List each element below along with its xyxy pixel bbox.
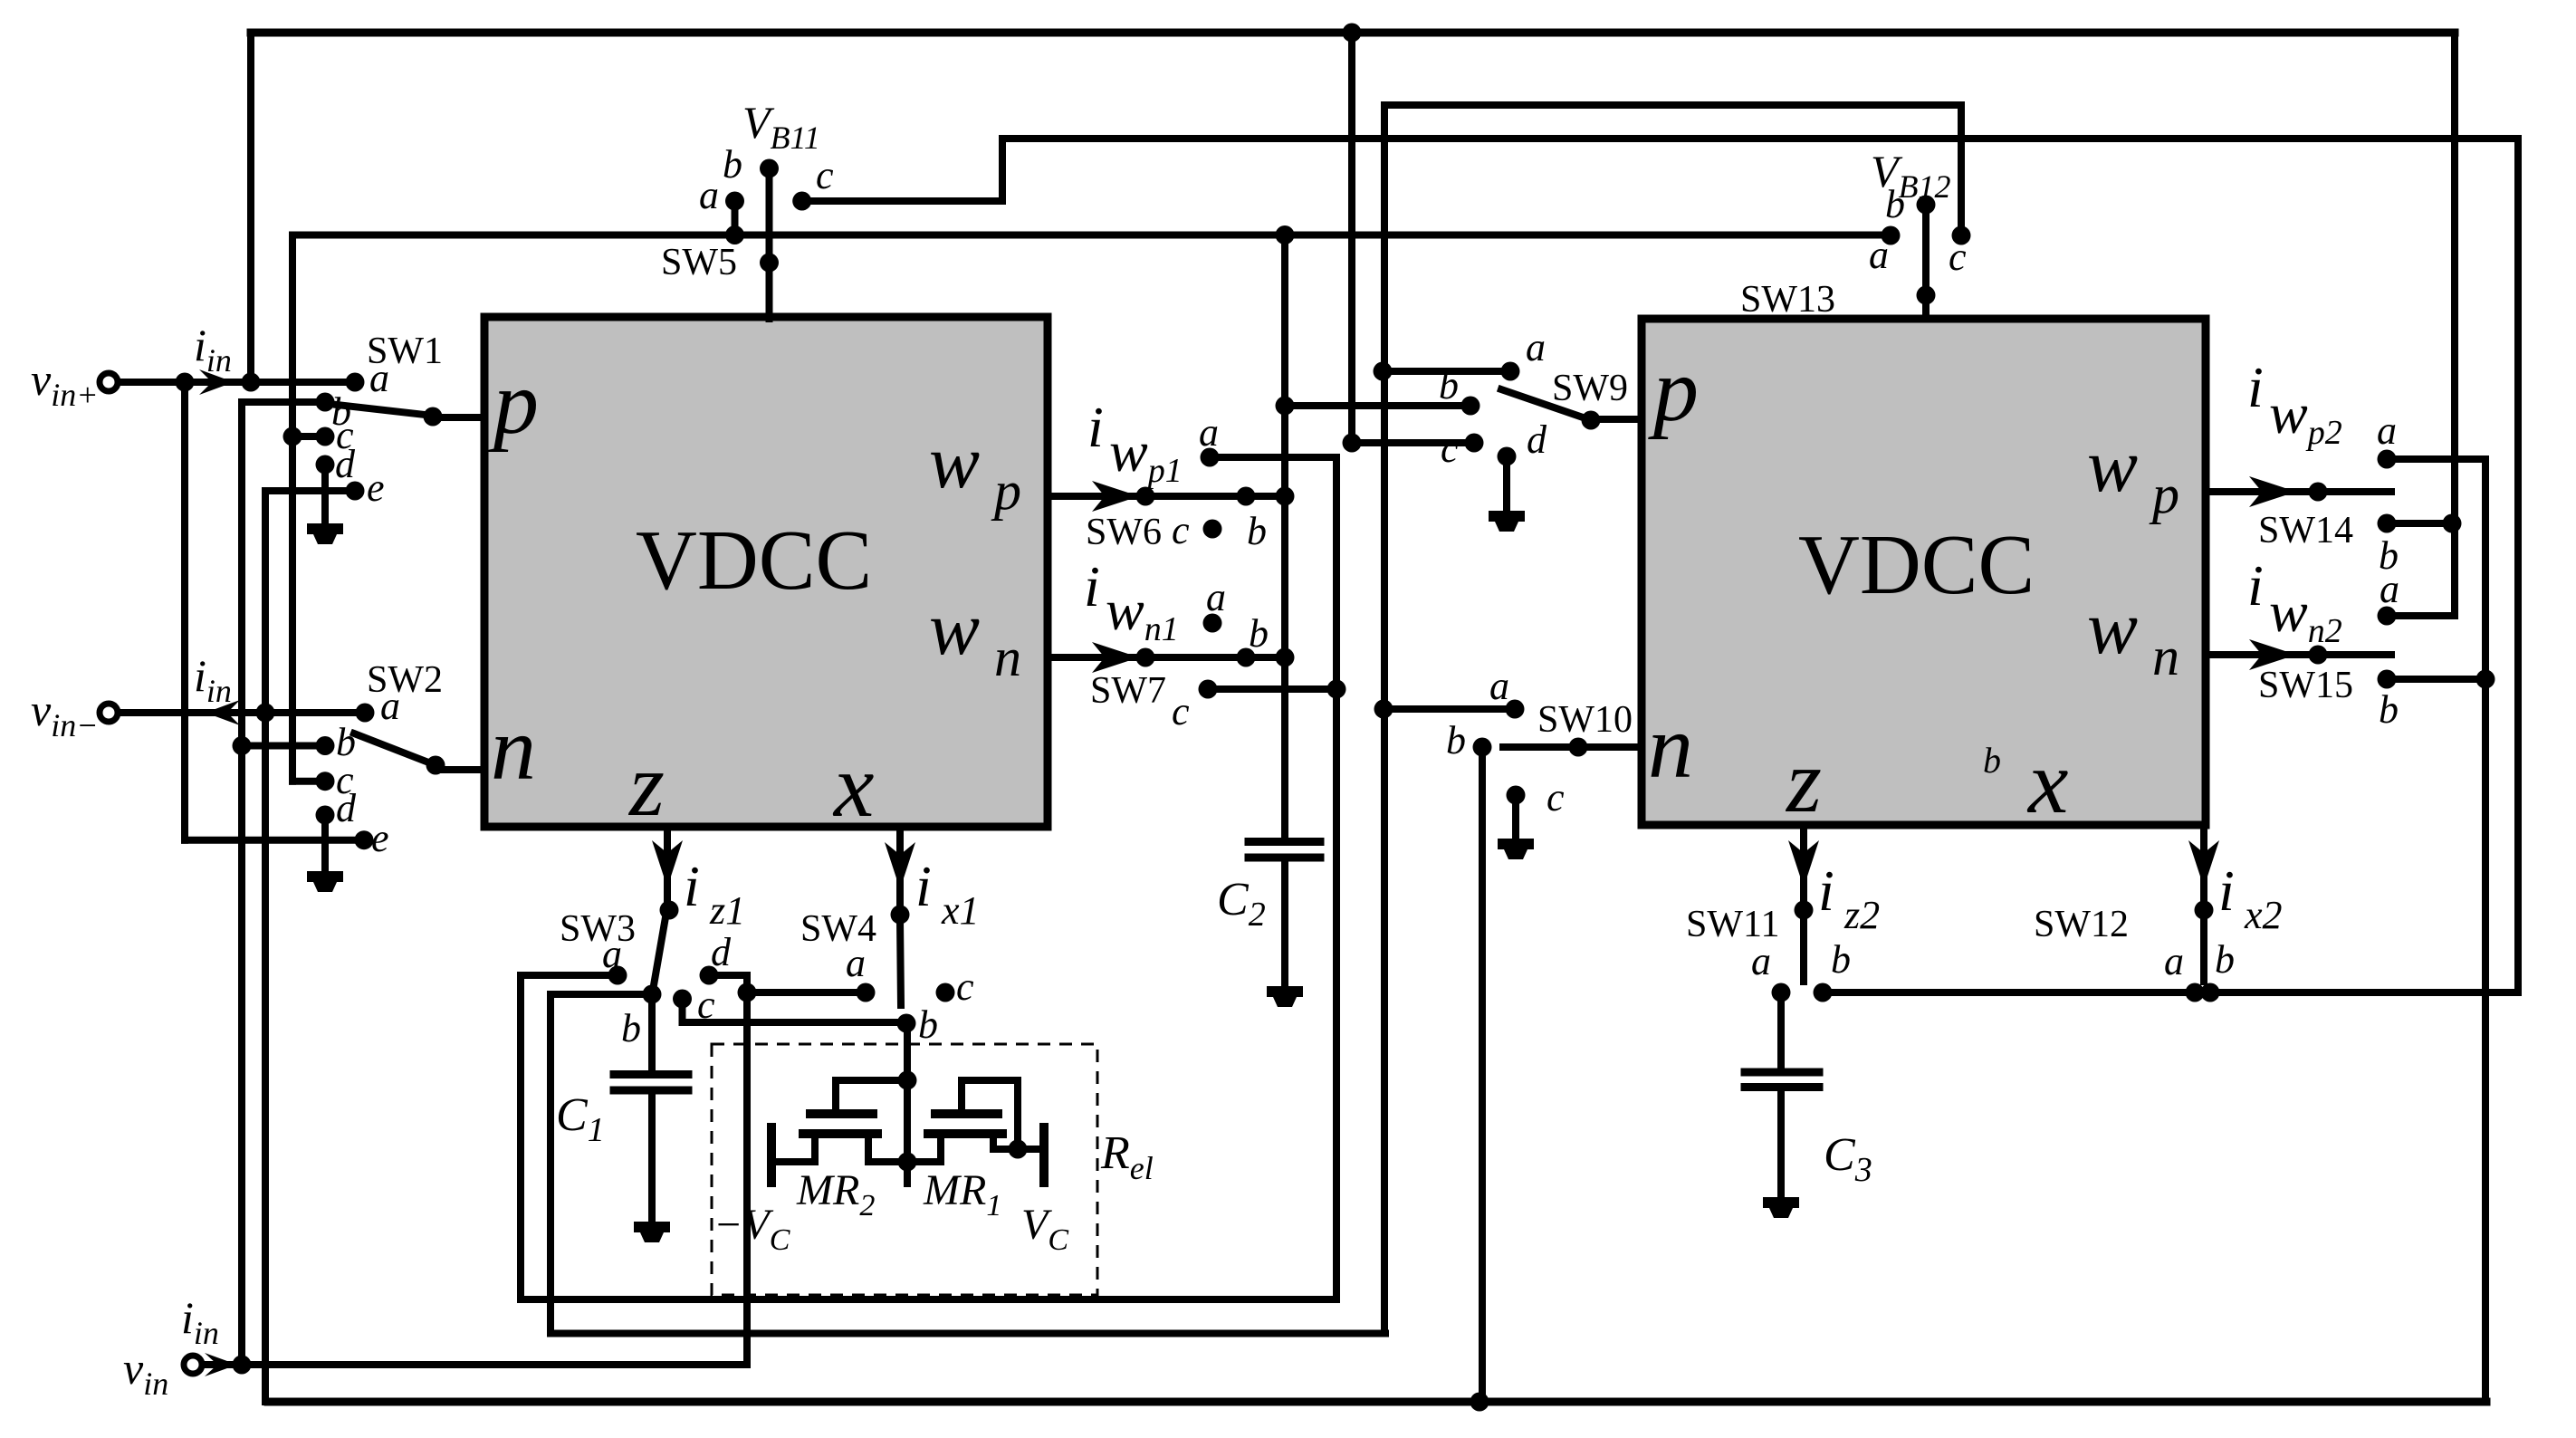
svg-text:b: b xyxy=(1885,182,1905,226)
svg-text:b: b xyxy=(1247,509,1267,553)
svg-text:i: i xyxy=(2247,355,2264,419)
svg-text:i: i xyxy=(1818,858,1834,923)
svg-text:a: a xyxy=(1199,410,1219,455)
svg-text:b: b xyxy=(1831,937,1851,982)
svg-text:a: a xyxy=(1751,939,1771,983)
svg-text:d: d xyxy=(336,786,357,830)
svg-text:b: b xyxy=(2215,937,2235,982)
svg-text:z1: z1 xyxy=(709,888,745,933)
svg-text:SW2: SW2 xyxy=(367,659,443,701)
svg-text:i: i xyxy=(915,854,932,918)
svg-text:c: c xyxy=(1949,235,1967,279)
svg-text:b: b xyxy=(1439,363,1459,407)
svg-text:z2: z2 xyxy=(1843,893,1880,937)
svg-text:i: i xyxy=(2218,858,2235,923)
svg-text:a: a xyxy=(2377,408,2397,453)
svg-text:a: a xyxy=(2380,567,2399,611)
svg-text:a: a xyxy=(846,941,866,985)
svg-text:b: b xyxy=(918,1002,938,1047)
svg-text:VDCC: VDCC xyxy=(636,513,872,608)
svg-text:p: p xyxy=(1648,340,1699,440)
svg-text:a: a xyxy=(2164,939,2184,983)
svg-text:c: c xyxy=(1441,427,1459,471)
svg-text:c: c xyxy=(1172,689,1190,733)
svg-text:x: x xyxy=(832,735,874,836)
svg-text:x2: x2 xyxy=(2244,893,2283,937)
svg-text:i: i xyxy=(1084,554,1100,618)
svg-text:b: b xyxy=(621,1006,641,1050)
svg-text:SW3: SW3 xyxy=(560,908,636,950)
svg-text:p: p xyxy=(488,352,539,453)
svg-text:i: i xyxy=(1087,395,1104,459)
svg-text:n: n xyxy=(1648,696,1693,797)
svg-text:b: b xyxy=(723,142,742,187)
svg-text:c: c xyxy=(697,983,715,1027)
svg-text:d: d xyxy=(1527,417,1547,462)
svg-text:c: c xyxy=(1172,508,1190,552)
svg-text:b: b xyxy=(1446,718,1466,762)
svg-text:z: z xyxy=(627,734,665,835)
svg-text:x1: x1 xyxy=(941,888,980,933)
svg-text:VDCC: VDCC xyxy=(1798,518,2035,612)
svg-text:d: d xyxy=(335,442,356,486)
svg-text:x: x xyxy=(2026,732,2068,832)
svg-text:a: a xyxy=(602,932,622,976)
svg-text:b: b xyxy=(1249,611,1269,656)
svg-text:SW10: SW10 xyxy=(1537,699,1633,741)
svg-text:a: a xyxy=(699,173,719,217)
svg-text:SW5: SW5 xyxy=(661,242,737,283)
svg-text:SW15: SW15 xyxy=(2258,665,2353,706)
svg-text:e: e xyxy=(371,816,389,860)
svg-text:c: c xyxy=(956,964,974,1009)
svg-text:SW9: SW9 xyxy=(1552,368,1628,409)
svg-text:b: b xyxy=(2379,687,2399,732)
svg-text:SW6: SW6 xyxy=(1086,512,1162,553)
svg-text:e: e xyxy=(367,465,385,510)
svg-text:i: i xyxy=(2247,553,2264,618)
svg-text:a: a xyxy=(1206,575,1226,619)
svg-text:a: a xyxy=(1489,664,1509,708)
svg-text:n: n xyxy=(491,698,536,799)
svg-text:a: a xyxy=(1526,325,1546,369)
svg-text:d: d xyxy=(711,930,732,974)
svg-text:c: c xyxy=(816,153,834,197)
svg-text:a: a xyxy=(380,684,400,728)
svg-text:SW13: SW13 xyxy=(1740,279,1835,321)
svg-text:i: i xyxy=(684,854,700,918)
svg-text:c: c xyxy=(1547,775,1565,820)
svg-text:SW12: SW12 xyxy=(2034,904,2129,945)
svg-text:z: z xyxy=(1785,731,1822,831)
svg-text:SW7: SW7 xyxy=(1090,670,1166,712)
svg-text:SW14: SW14 xyxy=(2258,510,2353,551)
svg-text:b: b xyxy=(1983,740,2001,781)
svg-text:a: a xyxy=(369,356,389,400)
svg-text:a: a xyxy=(1869,233,1889,277)
